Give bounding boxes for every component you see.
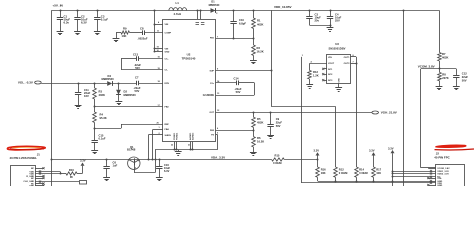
capacitor C7 bbox=[136, 81, 138, 86]
wire VDD tie bbox=[60, 172, 62, 174]
junction VGL-D2 bbox=[118, 83, 120, 85]
svg-text:R16: R16 bbox=[321, 167, 326, 171]
diode D1 bbox=[211, 8, 216, 13]
resistor R14 col3 bbox=[355, 167, 359, 177]
svg-text:0 OHM: 0 OHM bbox=[359, 171, 368, 175]
wire R9 left bbox=[116, 32, 121, 34]
wire C1- bottom bbox=[121, 69, 163, 71]
svg-text:R7: R7 bbox=[442, 52, 446, 56]
svg-text:R1: R1 bbox=[257, 19, 261, 23]
svg-text:NC3: NC3 bbox=[328, 80, 333, 82]
svg-text:1.2K: 1.2K bbox=[313, 73, 319, 77]
svg-text:227K: 227K bbox=[442, 76, 448, 80]
svg-text:402K: 402K bbox=[257, 23, 263, 27]
svg-text:16V: 16V bbox=[84, 94, 89, 98]
wire C13 to pin16 bbox=[139, 58, 163, 60]
svg-text:VGH_21.9V: VGH_21.9V bbox=[381, 110, 397, 114]
svg-text:C1+: C1+ bbox=[165, 59, 170, 61]
svg-text:R14: R14 bbox=[359, 167, 364, 171]
junction VDD-R10 bbox=[60, 173, 62, 175]
wire C14 loop right bbox=[254, 83, 256, 95]
wire C2- bottom bbox=[216, 95, 255, 97]
wire C3b-C4 bottoms bbox=[309, 25, 330, 27]
svg-text:50V: 50V bbox=[236, 90, 241, 94]
ground C15 bbox=[91, 150, 98, 152]
wire J1 VDD2 bbox=[35, 173, 60, 175]
svg-text:R13: R13 bbox=[313, 70, 318, 74]
svg-text:SHDN: SHDN bbox=[165, 135, 172, 137]
svg-text:4.7uH: 4.7uH bbox=[174, 12, 182, 16]
svg-text:U3: U3 bbox=[335, 42, 339, 46]
svg-text:22: 22 bbox=[171, 145, 173, 147]
op-amp U3 box bbox=[327, 55, 351, 84]
svg-text:R15: R15 bbox=[275, 154, 280, 158]
wire C2+ top bbox=[216, 82, 237, 84]
svg-text:.0022uF: .0022uF bbox=[138, 36, 148, 40]
junction rail-SW1 bbox=[197, 10, 199, 12]
svg-text:402K: 402K bbox=[442, 56, 448, 60]
wire U3 VOUT-R13 bbox=[310, 63, 327, 65]
svg-text:VCOM_3.8V: VCOM_3.8V bbox=[418, 64, 435, 68]
junction VDA-C6 bbox=[106, 159, 108, 161]
svg-text:0.1uF: 0.1uF bbox=[99, 136, 106, 140]
wire C1+ top bbox=[121, 58, 136, 60]
wire FB2 row bbox=[95, 106, 163, 108]
svg-text:AGND1: AGND1 bbox=[189, 132, 192, 140]
capacitor C6 bbox=[106, 160, 108, 167]
svg-text:R17: R17 bbox=[376, 167, 381, 171]
junction rail-C10 bbox=[233, 10, 235, 12]
capacitor C3b 10uF bbox=[309, 10, 311, 16]
ground C9 bbox=[267, 135, 274, 137]
wire VCOM left drop bbox=[420, 69, 422, 168]
svg-text:10K: 10K bbox=[376, 171, 381, 175]
svg-text:VDA_3.3V: VDA_3.3V bbox=[211, 155, 225, 159]
wire VGH row bbox=[216, 112, 372, 114]
junction REF node bbox=[94, 128, 96, 130]
wire AVDD right vertical x403.5 bbox=[403, 10, 405, 186]
resistor R3 bbox=[94, 83, 96, 88]
capacitor C10 bbox=[233, 10, 235, 21]
wire SHDN route bbox=[148, 134, 163, 136]
svg-text:1uF: 1uF bbox=[113, 163, 118, 167]
svg-text:OUT2: OUT2 bbox=[344, 63, 351, 65]
wire REF step bbox=[121, 124, 163, 126]
capacitor C9 bbox=[270, 113, 272, 124]
svg-text:R12: R12 bbox=[339, 167, 344, 171]
svg-text:R2: R2 bbox=[257, 46, 261, 50]
svg-text:25v: 25v bbox=[315, 18, 320, 22]
svg-text:R4: R4 bbox=[100, 113, 104, 117]
junction 3.3V w3 bbox=[392, 176, 394, 178]
svg-text:MBR0520: MBR0520 bbox=[102, 77, 115, 81]
ground R13 bbox=[306, 84, 313, 86]
junction rail-VIN drop bbox=[154, 10, 156, 12]
op-amp U2 TPS65140 box bbox=[163, 20, 216, 142]
wire FS route bbox=[216, 134, 218, 136]
junction bus col3 bbox=[356, 181, 358, 183]
junction VDA-C16 bbox=[159, 159, 161, 161]
junction C4 gnd bbox=[330, 25, 332, 27]
junction bottom pins2 bbox=[190, 149, 192, 151]
port VGH oval bbox=[372, 111, 379, 114]
svg-text:R8: R8 bbox=[442, 72, 446, 76]
svg-text:DRV: DRV bbox=[165, 83, 170, 85]
svg-text:OUT1: OUT1 bbox=[344, 57, 351, 59]
wire C8-COMP pin bbox=[144, 32, 163, 34]
svg-text:6.8pF: 6.8pF bbox=[239, 22, 246, 26]
junction bus col4 bbox=[373, 181, 375, 183]
wire bottom pin stubs bbox=[174, 142, 176, 150]
wire W1 to J2 bbox=[392, 171, 436, 173]
wire AVDD down x335.8 bbox=[335, 107, 337, 167]
ground R2 bbox=[250, 60, 257, 62]
wire J1 VDD1 bbox=[35, 171, 60, 173]
ground R6 bbox=[250, 152, 257, 154]
junction FB1-C10 bbox=[233, 38, 235, 40]
wire FB3 row bbox=[216, 130, 254, 132]
svg-text:21: 21 bbox=[188, 145, 190, 147]
svg-text:C13: C13 bbox=[133, 52, 138, 56]
svg-text:NC2: NC2 bbox=[328, 74, 333, 76]
wire VIN vertical bbox=[154, 10, 156, 51]
junction +5V corner bbox=[51, 159, 53, 161]
wire pin19 stub bbox=[154, 48, 163, 50]
junction bottom pins1 bbox=[174, 149, 176, 151]
svg-text:3.3V: 3.3V bbox=[388, 146, 394, 150]
wire U3 OUT1 bbox=[351, 56, 357, 58]
junction VGL-R3 bbox=[94, 83, 96, 85]
svg-text:GND: GND bbox=[437, 185, 442, 186]
svg-text:50V: 50V bbox=[135, 89, 140, 93]
junction OUT tie bbox=[356, 63, 358, 65]
resistor R1 bbox=[253, 10, 255, 18]
resistor R12 col2 bbox=[334, 167, 338, 177]
junction VIN pin19 bbox=[154, 48, 156, 50]
junction bus x392 bbox=[392, 181, 394, 183]
svg-text:6.3V: 6.3V bbox=[81, 21, 87, 25]
junction rail-C4 bbox=[330, 10, 332, 12]
svg-text:VIN: VIN bbox=[328, 57, 332, 59]
svg-text:C7: C7 bbox=[135, 76, 139, 80]
wire chip bottom gnd bbox=[155, 149, 218, 151]
svg-text:3.3V: 3.3V bbox=[314, 149, 320, 153]
capacitor C11 bbox=[78, 83, 80, 93]
junction VDA-x155 bbox=[155, 159, 157, 161]
svg-text:OUT: OUT bbox=[209, 112, 214, 114]
junction bus col2 bbox=[335, 181, 337, 183]
ground U3 bbox=[335, 87, 342, 89]
port VGL oval bbox=[35, 81, 42, 84]
wire bottom bus bbox=[318, 181, 429, 183]
svg-text:50V: 50V bbox=[462, 78, 467, 82]
junction rail-SW2 bbox=[200, 10, 202, 12]
svg-text:NC: NC bbox=[31, 168, 35, 170]
resistor R4 bbox=[94, 107, 96, 112]
ground C2 bbox=[74, 31, 81, 33]
capacitor C15 bbox=[94, 128, 96, 140]
svg-text:40 PIN FPC: 40 PIN FPC bbox=[434, 156, 450, 160]
svg-text:J1: J1 bbox=[37, 152, 41, 156]
connector J2 box bbox=[436, 165, 465, 187]
wire C13 loop left bbox=[121, 59, 123, 70]
svg-text:25V: 25V bbox=[335, 18, 340, 22]
transistor Q1 BCP68 bbox=[128, 157, 140, 169]
svg-text:C14: C14 bbox=[234, 77, 239, 81]
wire D4-D2 bbox=[112, 83, 137, 85]
junction rail-C1 bbox=[60, 10, 62, 12]
capacitor C12 bbox=[456, 69, 458, 76]
junction FB4-VDA bbox=[152, 159, 154, 161]
wire AVDD down x271.5 bbox=[271, 10, 273, 107]
capacitor C14 bbox=[236, 81, 238, 86]
resistor R6 bbox=[253, 130, 255, 137]
svg-text:+5V_IN: +5V_IN bbox=[52, 3, 63, 7]
junction 3.3V w2 bbox=[392, 173, 394, 175]
svg-text:COMP: COMP bbox=[165, 33, 172, 35]
svg-text:R10: R10 bbox=[69, 168, 74, 172]
inductor L1 bbox=[169, 8, 173, 11]
wire R15-col1 bbox=[284, 159, 318, 161]
ground chip AGND bbox=[178, 150, 180, 152]
svg-text:C10: C10 bbox=[239, 18, 244, 22]
J2 pin stubs bbox=[428, 168, 436, 170]
resistor R15 0ohm bbox=[272, 158, 285, 161]
junction VDA-col1 bbox=[317, 159, 319, 161]
junction rail-C3b bbox=[309, 10, 311, 12]
junction rail-R1 bbox=[253, 10, 255, 12]
resistor R9 bbox=[121, 31, 130, 34]
wire R10 to 3.3V bbox=[77, 173, 82, 175]
resistor R5 bbox=[253, 113, 255, 118]
wire pin10 stub bbox=[154, 51, 163, 53]
svg-text:BCP68: BCP68 bbox=[127, 148, 136, 152]
junction FB2-R4 bbox=[94, 106, 96, 108]
ground C3b/C4 bbox=[330, 25, 332, 28]
resistor R17 col4 bbox=[372, 167, 376, 177]
wire top +5V rail bbox=[52, 10, 439, 12]
wire SW pin stubs bbox=[197, 10, 199, 19]
resistor R7 bbox=[439, 50, 441, 53]
svg-text:0 OHM: 0 OHM bbox=[273, 161, 282, 165]
svg-text:R3: R3 bbox=[99, 89, 103, 93]
svg-text:VCOM_3.8V: VCOM_3.8V bbox=[437, 168, 450, 170]
svg-text:50V: 50V bbox=[276, 124, 281, 128]
svg-text:L1: L1 bbox=[176, 1, 180, 5]
wire FB1 row bbox=[216, 38, 254, 40]
red annotation right bbox=[436, 145, 466, 147]
ground R9 bbox=[116, 33, 118, 39]
capacitor C8 bbox=[142, 30, 144, 35]
junction rail x404 drop bbox=[403, 10, 405, 12]
svg-text:NC1: NC1 bbox=[328, 69, 333, 71]
svg-text:6.3v: 6.3v bbox=[64, 21, 70, 25]
wire W3 to J2 bbox=[392, 176, 436, 178]
svg-text:R6: R6 bbox=[257, 136, 261, 140]
svg-text:MBR0520: MBR0520 bbox=[124, 93, 137, 97]
wire VCOM to J2 bbox=[421, 167, 436, 169]
svg-text:402K: 402K bbox=[99, 93, 105, 97]
svg-text:C8: C8 bbox=[140, 26, 144, 30]
junction rail-C2 bbox=[77, 10, 79, 12]
svg-text:22uF: 22uF bbox=[276, 121, 283, 125]
diode D4 bbox=[107, 81, 112, 86]
U3 GND stub bbox=[338, 83, 340, 88]
svg-text:TPS65140: TPS65140 bbox=[182, 57, 196, 61]
wire SUP pin bbox=[216, 70, 272, 72]
resistor R16 col1 bbox=[317, 160, 319, 167]
svg-text:C2-/MODE: C2-/MODE bbox=[203, 95, 215, 97]
svg-text:40 PIN LVDS PANEL: 40 PIN LVDS PANEL bbox=[10, 156, 38, 160]
svg-text:R9: R9 bbox=[123, 27, 127, 31]
svg-text:VDD2_3.3V: VDD2_3.3V bbox=[437, 174, 449, 176]
wire W2 to J2 bbox=[392, 173, 436, 175]
ground R8 bbox=[436, 86, 443, 88]
resistor R2 bbox=[253, 39, 255, 45]
ground C11 bbox=[75, 105, 82, 107]
junction 3.3V w1 bbox=[392, 171, 394, 173]
J1 pin stubs bbox=[35, 168, 43, 170]
ground D2 bbox=[116, 101, 123, 103]
svg-text:MBR0520: MBR0520 bbox=[209, 4, 220, 7]
ground C1 bbox=[57, 31, 64, 33]
svg-text:0 OHM: 0 OHM bbox=[339, 171, 348, 175]
wire J1 CLK long bbox=[35, 181, 79, 183]
junction FB3-R5R6 bbox=[253, 130, 255, 132]
wire AVDD corner right bbox=[272, 106, 336, 108]
junction VGL-C11 bbox=[78, 83, 80, 85]
capacitor C16 bbox=[159, 160, 161, 167]
svg-text:16.2K: 16.2K bbox=[257, 139, 264, 143]
capacitor C1 bbox=[60, 10, 62, 17]
wire rail corner to R7 bbox=[439, 10, 441, 50]
wire C7-DRV pin bbox=[139, 83, 163, 85]
wire FB4 route bbox=[153, 129, 163, 131]
junction VIN pin10 bbox=[154, 51, 156, 53]
svg-text:D2: D2 bbox=[124, 89, 128, 93]
wire bus to J2 stub bbox=[428, 181, 436, 183]
ground C6 bbox=[103, 177, 110, 179]
svg-text:6.3V: 6.3V bbox=[164, 169, 170, 173]
wire R10 left bbox=[60, 173, 66, 175]
ground C12 bbox=[453, 86, 460, 88]
ground C3 bbox=[94, 31, 101, 33]
svg-text:452K: 452K bbox=[257, 120, 263, 124]
svg-text:C9: C9 bbox=[276, 117, 280, 121]
capacitor C13 bbox=[136, 56, 138, 61]
junction VCOM node bbox=[439, 68, 441, 70]
wire VCOM buf down x356 bbox=[356, 63, 358, 167]
svg-text:16.2K: 16.2K bbox=[257, 49, 264, 53]
junction VIN pin4 bbox=[154, 24, 156, 26]
wire VCOM node row bbox=[421, 68, 457, 70]
svg-text:VGL_-5.3V: VGL_-5.3V bbox=[18, 81, 33, 85]
wire left vertical +5V drop x=51.7 bbox=[51, 10, 53, 159]
wire C14 to loop bbox=[239, 82, 255, 84]
svg-text:GND: GND bbox=[339, 78, 341, 83]
wire VDA left segment bbox=[52, 159, 272, 161]
wire U3 OUT2 bbox=[351, 63, 357, 65]
svg-text:3.3V: 3.3V bbox=[369, 149, 375, 153]
svg-text:SUP: SUP bbox=[210, 71, 215, 73]
svg-text:0.1uF: 0.1uF bbox=[101, 18, 109, 22]
junction FB1-R1 bbox=[253, 38, 255, 40]
svg-text:10K: 10K bbox=[321, 171, 326, 175]
capacitor C3 bbox=[97, 10, 99, 17]
wire Q1 base route bbox=[134, 166, 136, 173]
svg-text:95.3K: 95.3K bbox=[100, 116, 107, 120]
svg-text:C1-: C1- bbox=[165, 70, 169, 72]
junction VGH-C9 bbox=[270, 112, 272, 114]
connector J1 box bbox=[11, 166, 36, 187]
svg-text:3.3V: 3.3V bbox=[80, 158, 86, 162]
junction VGH-R5 bbox=[253, 112, 255, 114]
wire U3VIN to J2 bbox=[301, 182, 436, 184]
resistor R8 bbox=[439, 69, 441, 73]
svg-text:GND: GND bbox=[165, 52, 170, 54]
capacitor C4 10uF bbox=[330, 10, 332, 16]
svg-text:VDD_10.85V: VDD_10.85V bbox=[274, 5, 292, 9]
U3 NC stubs bbox=[324, 68, 328, 70]
wire R9-C8 bbox=[130, 32, 143, 34]
resistor R10 bbox=[66, 172, 77, 175]
pin labels SW bbox=[196, 22, 200, 24]
svg-text:R5: R5 bbox=[257, 117, 261, 121]
capacitor C2 bbox=[77, 10, 79, 17]
red annotation left bbox=[7, 146, 45, 149]
svg-text:AGND2: AGND2 bbox=[192, 132, 195, 140]
svg-text:SN10501DBV: SN10501DBV bbox=[329, 46, 346, 50]
ground C16 bbox=[156, 177, 163, 179]
diode D2 bbox=[118, 83, 120, 90]
svg-text:NC: NC bbox=[31, 178, 35, 180]
resistor R13 bbox=[308, 70, 312, 79]
svg-text:REF: REF bbox=[165, 124, 170, 126]
junction SUP-AVDD bbox=[271, 70, 273, 72]
svg-text:C2+: C2+ bbox=[210, 83, 215, 85]
component ferrite bead FB1 bbox=[80, 181, 87, 185]
wire VGL row bbox=[41, 83, 107, 85]
svg-text:PGND2: PGND2 bbox=[177, 132, 179, 140]
svg-text:VIN: VIN bbox=[165, 24, 169, 26]
svg-text:VOUT: VOUT bbox=[328, 63, 335, 65]
svg-text:13K: 13K bbox=[122, 34, 127, 38]
svg-text:GND: GND bbox=[29, 185, 34, 186]
svg-text:22uF: 22uF bbox=[462, 75, 469, 79]
wire pin4 stub bbox=[154, 24, 163, 26]
svg-text:C12: C12 bbox=[462, 71, 467, 75]
junction SHDN-VDA bbox=[148, 159, 150, 161]
junction rail-C3 bbox=[97, 10, 99, 12]
svg-text:VIN: VIN bbox=[165, 48, 169, 50]
